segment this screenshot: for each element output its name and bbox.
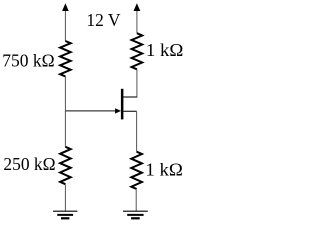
wire drain lead (corner to JFET drain)	[123, 96, 137, 98]
wire drain vertical (R3 bottom to corner)	[136, 69, 138, 97]
svg-text:250 kΩ: 250 kΩ	[3, 154, 55, 174]
svg-text:750 kΩ: 750 kΩ	[2, 51, 54, 71]
resistor R3 1k drain	[132, 33, 143, 69]
wire left middle (R1 bottom to R2 top, gate junction)	[64, 76, 66, 146]
wire gate (left branch to JFET gate)	[65, 110, 116, 112]
wire left bottom (R2 to ground)	[64, 184, 66, 211]
ground left	[53, 211, 77, 218]
supply arrow left	[62, 3, 69, 41]
svg-text:12 V: 12 V	[86, 10, 120, 30]
ground right	[123, 211, 148, 218]
supply arrow right	[134, 3, 141, 33]
wire source vertical (corner to R4 top)	[136, 111, 138, 151]
transistor Q1 JFET channel bar	[121, 89, 124, 120]
resistor R2 250k	[60, 147, 71, 184]
svg-text:1 kΩ: 1 kΩ	[145, 159, 183, 179]
resistor R4 1k source	[131, 152, 142, 189]
wire source lead (JFET source to corner)	[123, 110, 137, 112]
transistor Q1 JFET gate arrowhead	[115, 108, 121, 113]
svg-text:1 kΩ: 1 kΩ	[146, 40, 184, 60]
resistor R1 750k	[60, 41, 71, 76]
wire right bottom (R4 to ground)	[135, 189, 137, 211]
